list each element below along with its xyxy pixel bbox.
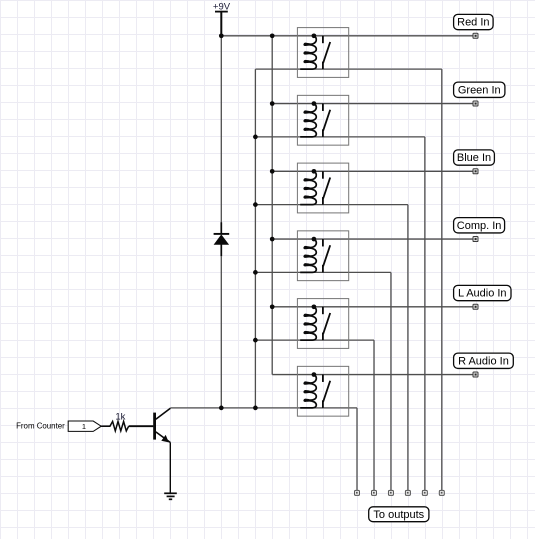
svg-text:Blue In: Blue In (457, 152, 491, 164)
node L Audio In label (454, 285, 511, 300)
transistor Q1 (155, 408, 171, 442)
wire bus to Green In terminal (relay 2 top) (272, 103, 473, 105)
terminal pin Green In (473, 101, 478, 106)
svg-text:1: 1 (82, 422, 86, 431)
terminal pin output 6 (439, 490, 444, 495)
wire +9V distribution bus (x=272) (271, 36, 273, 375)
wire emitter to ground (169, 442, 171, 493)
node Green In label (454, 82, 505, 97)
terminal pin L Audio In (473, 304, 478, 309)
wire diode anode to collector node (220, 256, 222, 408)
node Red In label (454, 14, 494, 29)
terminal pin output 5 (422, 490, 427, 495)
wire bus to L Audio In terminal (relay 5 top) (272, 306, 473, 308)
node Comp. In label (454, 218, 505, 233)
wire relay 4 bottom (coil return / switch out) (255, 271, 391, 273)
resistor R1 1k (110, 421, 129, 431)
junction +9V rail / relay1 top (219, 33, 224, 38)
relay K4 (297, 231, 348, 281)
node Blue In label (454, 150, 495, 165)
svg-text:1k: 1k (115, 411, 125, 422)
wire relay 2 bottom (coil return / switch out) (255, 136, 424, 138)
power +9V (213, 2, 231, 36)
junction bus x255 / collector wire (253, 406, 258, 411)
relay K3 (297, 163, 348, 213)
wire relay 1 switch output down to terminal (441, 69, 443, 490)
relay K5 (297, 299, 348, 349)
svg-text:Comp. In: Comp. In (457, 220, 502, 232)
ground (164, 493, 177, 499)
terminal pin Comp. In (473, 237, 478, 242)
junction bus x272 / relay 4 top (270, 237, 275, 242)
wire relay 3 bottom (coil return / switch out) (255, 204, 408, 206)
terminal pin Blue In (473, 169, 478, 174)
junction bus x255 / relay 4 bottom (253, 270, 258, 275)
junction bus x272 / relay 2 top (270, 101, 275, 106)
svg-text:L Audio In: L Audio In (458, 288, 507, 300)
junction bus x272 / relay1 top (270, 33, 275, 38)
svg-text:Green In: Green In (458, 84, 501, 96)
wire relay 4 switch output down to terminal (390, 272, 392, 490)
node From Counter (16, 422, 65, 431)
terminal pin R Audio In (473, 372, 478, 377)
relay K1 (297, 28, 348, 78)
junction bus x255 / relay 5 bottom (253, 338, 258, 343)
svg-text:To outputs: To outputs (373, 509, 424, 521)
svg-text:R Audio In: R Audio In (458, 355, 509, 367)
terminal pin output 1 (355, 490, 360, 495)
wire bus to R Audio In terminal (relay 6 top) (272, 374, 473, 376)
junction bus x255 / relay 2 bottom (253, 135, 258, 140)
terminal pin Red In (473, 33, 478, 38)
value label 1k (115, 411, 125, 422)
wire relay 6 switch output down to terminal (356, 408, 358, 491)
junction bus x272 / relay 3 top (270, 169, 275, 174)
svg-text:From Counter: From Counter (16, 422, 65, 431)
terminal pin output 2 (372, 490, 377, 495)
junction bus x255 / relay 3 bottom (253, 202, 258, 207)
wire bus to Blue In terminal (relay 3 top) (272, 170, 473, 172)
wire flag to resistor (101, 425, 110, 427)
diode D1 (214, 222, 230, 256)
node R Audio In label (454, 353, 514, 368)
wire relay 2 switch output down to terminal (424, 137, 426, 491)
terminal pin output 4 (405, 490, 410, 495)
wire relay 5 switch output down to terminal (373, 340, 375, 490)
relay K6 (297, 366, 348, 416)
svg-text:Red In: Red In (457, 17, 489, 29)
wire +9V junction to Red In terminal (relay 1 top) (221, 35, 473, 37)
bus flag 1 (68, 421, 101, 431)
wire relay 3 switch output down to terminal (407, 205, 409, 491)
wire bus to Comp. In terminal (relay 4 top) (272, 238, 473, 240)
node To outputs label (369, 507, 429, 522)
relay K2 (297, 95, 348, 145)
junction diode branch / collector wire (219, 406, 224, 411)
wire collector node / relay 6 bottom (170, 407, 357, 409)
wire relay 5 bottom (coil return / switch out) (255, 339, 374, 341)
wire relay 1 bottom (coil return / switch out) (255, 68, 441, 70)
junction bus x272 / relay 5 top (270, 304, 275, 309)
wire resistor to base (129, 425, 154, 427)
wire +9V rail vertical (diode branch upper) (220, 36, 222, 223)
terminal pin output 3 (388, 490, 393, 495)
wire coil-return bus (x=255) (254, 69, 256, 408)
